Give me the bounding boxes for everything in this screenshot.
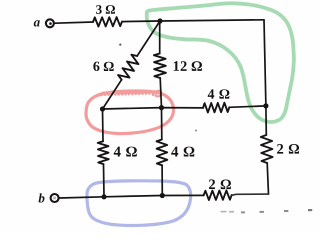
red small loop knot xyxy=(153,91,162,97)
resistor 4ohm mid-right: top lead xyxy=(161,108,163,140)
node right junction xyxy=(263,103,268,108)
green highlight loop (top-right mesh) xyxy=(147,3,294,122)
svg-text:6 Ω: 6 Ω xyxy=(93,60,115,75)
svg-text:4 Ω: 4 Ω xyxy=(113,144,137,160)
svg-text:2 Ω: 2 Ω xyxy=(276,142,300,158)
resistor 6ohm diagonal: top lead xyxy=(137,21,160,56)
svg-text:a: a xyxy=(34,14,41,29)
svg-text:b: b xyxy=(38,190,45,205)
resistor 4ohm left zigzag xyxy=(98,141,109,164)
terminal a circle xyxy=(46,19,54,27)
node mid-right junction xyxy=(159,105,164,110)
resistor 4ohm horizontal zigzag xyxy=(203,103,229,113)
wire 4ohm to right node xyxy=(229,106,266,107)
bottom wire 2ohm to right corner (lighter) xyxy=(232,194,269,195)
resistor 4ohm left bottom lead xyxy=(103,164,106,197)
bottom wire left node to 2ohm xyxy=(104,195,204,196)
resistor 2ohm right zigzag xyxy=(261,135,273,163)
node top junction xyxy=(157,18,162,23)
svg-text:2 Ω: 2 Ω xyxy=(208,177,232,193)
resistor 4ohm mid-right bottom lead xyxy=(161,165,163,195)
resistor 4ohm left: top lead xyxy=(102,109,105,141)
blue highlight loop (bottom mesh) xyxy=(87,181,191,226)
resistor 2ohm bottom zigzag xyxy=(204,190,232,200)
wire a to 3ohm xyxy=(55,22,93,23)
svg-text:4 Ω: 4 Ω xyxy=(171,145,195,161)
terminal b circle xyxy=(51,194,59,202)
red scribble squiggle xyxy=(100,91,160,95)
resistor 6ohm zigzag xyxy=(118,55,138,80)
node bottom-left junction xyxy=(101,194,106,199)
faint print-through marks bottom right xyxy=(221,209,313,213)
svg-text:3 Ω: 3 Ω xyxy=(96,2,116,17)
wire right side down xyxy=(264,20,266,135)
resistor 12ohm top lead xyxy=(159,21,161,53)
wire right bottom xyxy=(267,163,268,194)
svg-text:12 Ω: 12 Ω xyxy=(173,59,203,75)
speck xyxy=(119,44,121,46)
speck xyxy=(195,130,197,132)
svg-text:4 Ω: 4 Ω xyxy=(208,88,231,103)
resistor 6ohm bottom lead xyxy=(103,80,122,109)
bottom wire b to left node xyxy=(59,197,104,198)
resistor 12ohm zigzag xyxy=(154,54,166,79)
resistor 12ohm bottom lead xyxy=(160,78,161,108)
node mid-left junction xyxy=(100,106,105,111)
wire top: 3ohm to top-right corner xyxy=(122,20,264,22)
red highlight loop (middle-left mesh) xyxy=(86,91,174,134)
node bottom-mid junction xyxy=(160,193,165,198)
resistor 4ohm mid-right zigzag xyxy=(157,140,168,166)
middle wire xyxy=(103,108,204,109)
resistor R 3ohm zigzag xyxy=(93,17,122,26)
